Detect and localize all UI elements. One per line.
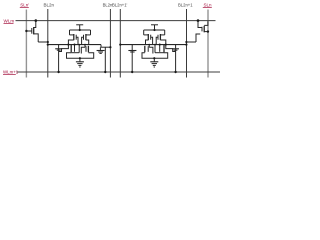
svg-text:SLn': SLn'	[20, 3, 29, 8]
svg-text:WLm: WLm	[4, 19, 15, 24]
svg-text:BL2n+1: BL2n+1	[178, 3, 193, 8]
svg-text:WLm+1: WLm+1	[3, 70, 19, 75]
svg-text:SLn: SLn	[204, 3, 213, 8]
svg-text:BL2n+1': BL2n+1'	[112, 3, 128, 8]
svg-text:BL2n: BL2n	[44, 3, 55, 8]
